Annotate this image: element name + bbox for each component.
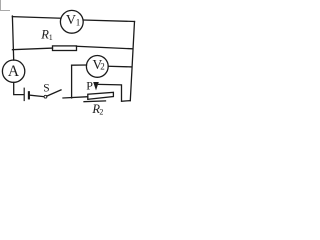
rheostat R2 body: [88, 92, 114, 99]
battery short plate: [28, 92, 30, 98]
resistor R1: [53, 46, 77, 51]
gray corner mark: [0, 0, 10, 11]
wire switch to rheostat left: [63, 97, 88, 98]
wire V2 right to rail: [108, 65, 131, 68]
wire R1 rail right: [77, 46, 133, 49]
battery long plate: [23, 88, 25, 100]
wire V1 to top-right corner: [83, 20, 134, 22]
rheostat under-line: [84, 100, 106, 103]
wire R1 rail left: [12, 48, 52, 50]
switch S blade: [47, 90, 61, 96]
ammeter A: [2, 60, 24, 82]
svg-text:A: A: [8, 63, 20, 80]
wiper arrow P: [93, 82, 99, 90]
voltmeter V2: [86, 56, 108, 78]
svg-text:2: 2: [100, 62, 105, 72]
svg-text:P: P: [86, 78, 93, 92]
svg-text:2: 2: [99, 107, 103, 116]
wire V2 left: [72, 64, 87, 66]
wire right rail: [130, 22, 134, 101]
wire battery to switch hinge: [30, 95, 44, 97]
wiper wire P to right rail: [99, 84, 131, 101]
wire top-left to V1: [12, 17, 61, 19]
svg-text:1: 1: [49, 33, 53, 42]
wire left rail: [12, 16, 13, 60]
switch S hinge: [44, 95, 47, 98]
voltmeter V1: [60, 10, 83, 33]
wire A to battery: [14, 82, 24, 94]
svg-text:1: 1: [76, 18, 81, 28]
svg-text:S: S: [43, 83, 49, 95]
svg-text:V: V: [66, 13, 76, 28]
node T junction vertical V2-left to bottom wire: [71, 65, 73, 98]
